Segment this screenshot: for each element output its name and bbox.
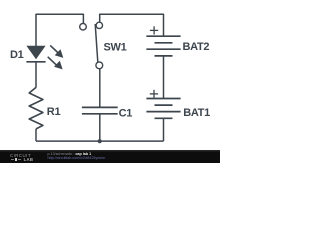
D1 emission arrow 2 (48, 57, 63, 70)
D1 triangle (anode) (26, 46, 45, 60)
D1 cathode bar (26, 61, 45, 63)
wire D1 cathode to R1 (35, 62, 37, 88)
wire C1 bottom to rail (99, 114, 101, 141)
bottom rail wire (36, 140, 164, 142)
SW1 top terminal circle (96, 22, 102, 28)
svg-text:BAT1: BAT1 (183, 107, 210, 119)
D1 emission arrow 1 (50, 45, 63, 58)
BAT2 plus sign (150, 26, 158, 34)
svg-text:R1: R1 (47, 106, 61, 118)
wire between BAT2 and BAT1 (163, 56, 165, 99)
switch SW1 (80, 22, 103, 69)
wire switch bottom to C1 top (99, 69, 101, 108)
svg-text:C1: C1 (119, 107, 133, 119)
battery BAT1 (146, 99, 180, 119)
footer text line 1 (48, 152, 92, 156)
capacitor C1 plates (82, 107, 118, 113)
BAT1 plus sign (150, 90, 158, 98)
resistor R1 zigzag (29, 87, 43, 128)
wire BAT1 bottom to rail (163, 118, 165, 141)
wire R1 bottom to rail (35, 129, 37, 141)
svg-text:BAT2: BAT2 (183, 41, 210, 53)
svg-text:SW1: SW1 (104, 41, 127, 53)
svg-text:D1: D1 (10, 49, 24, 61)
wire top-left from D1 to switch left terminal (36, 14, 83, 46)
junction node dot on bottom rail (98, 139, 102, 143)
LED D1 (26, 45, 63, 69)
wire top-right from switch to BAT2 (100, 14, 164, 36)
CircuitLab logo (10, 154, 31, 158)
SW1 bottom terminal circle (96, 62, 103, 69)
battery BAT2 (146, 36, 180, 56)
SW1 lever (95, 24, 98, 62)
footer attribution bar (0, 150, 220, 163)
footer text line 2 (48, 156, 106, 160)
SW1 left terminal circle (wire end) (80, 23, 87, 30)
